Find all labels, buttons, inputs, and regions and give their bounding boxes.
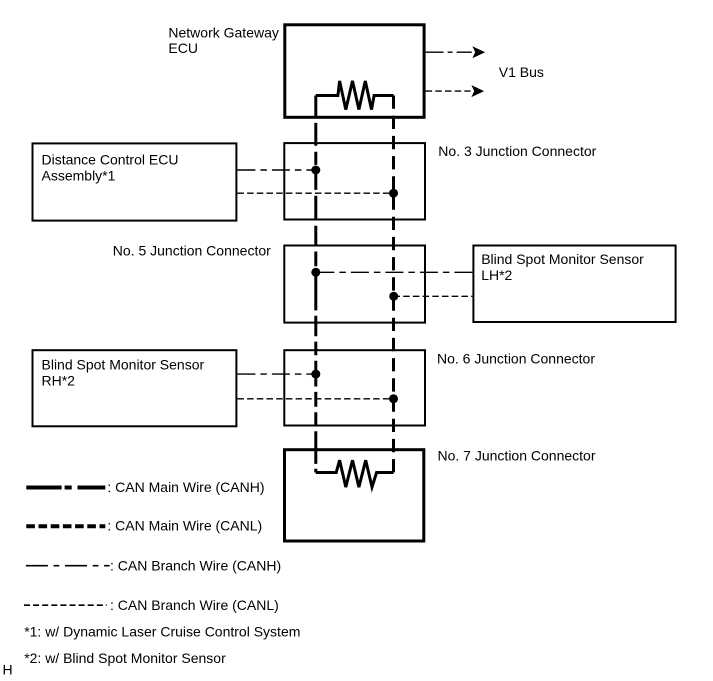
svg-text:Assembly*1: Assembly*1 [42, 167, 116, 183]
svg-text:Distance Control ECU: Distance Control ECU [42, 152, 179, 168]
svg-text:ECU: ECU [168, 40, 198, 56]
svg-text:*2: w/ Blind Spot Monitor Sens: *2: w/ Blind Spot Monitor Sensor [24, 650, 226, 666]
svg-text:H: H [3, 662, 13, 678]
svg-text:*1: w/ Dynamic Laser Cruise Co: *1: w/ Dynamic Laser Cruise Control Syst… [24, 624, 300, 640]
svg-text:Blind Spot Monitor Sensor: Blind Spot Monitor Sensor [481, 251, 644, 267]
svg-text:No. 7 Junction Connector: No. 7 Junction Connector [438, 448, 596, 464]
svg-text:: CAN Main Wire (CANH): : CAN Main Wire (CANH) [107, 479, 264, 495]
svg-text:: CAN Branch Wire (CANL): : CAN Branch Wire (CANL) [110, 597, 279, 613]
svg-text:LH*2: LH*2 [481, 267, 512, 283]
svg-text:: CAN Main Wire (CANL): : CAN Main Wire (CANL) [107, 518, 262, 534]
svg-text:No. 6 Junction Connector: No. 6 Junction Connector [437, 350, 595, 366]
svg-text:Network Gateway: Network Gateway [168, 25, 278, 41]
svg-text:No. 3 Junction Connector: No. 3 Junction Connector [438, 143, 596, 159]
svg-text:Blind Spot Monitor Sensor: Blind Spot Monitor Sensor [42, 357, 205, 373]
svg-text:V1 Bus: V1 Bus [499, 64, 544, 80]
svg-text:No. 5 Junction Connector: No. 5 Junction Connector [113, 243, 271, 259]
svg-text:: CAN Branch Wire (CANH): : CAN Branch Wire (CANH) [110, 558, 281, 574]
svg-text:RH*2: RH*2 [42, 372, 76, 388]
